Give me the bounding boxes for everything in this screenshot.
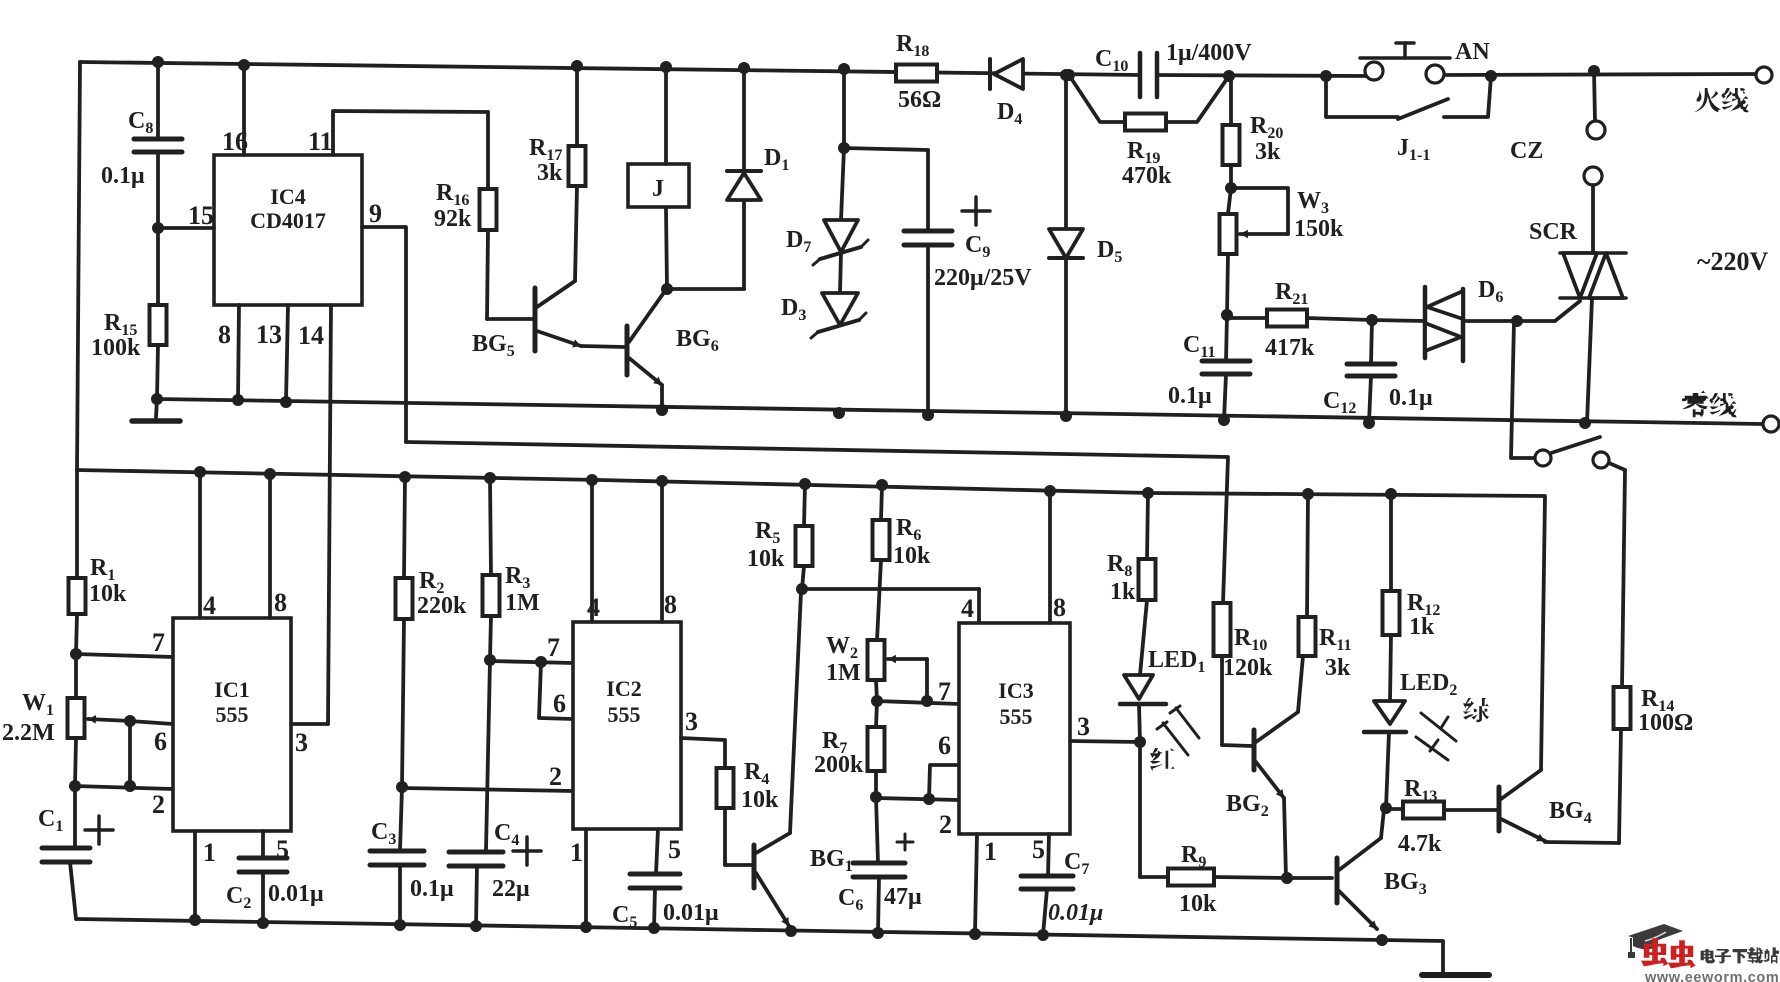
wire IC1 pin2: [75, 786, 173, 789]
svg-text:11: 11: [308, 127, 333, 156]
wire IC3 pin7: [877, 701, 959, 704]
svg-text:8: 8: [218, 320, 231, 349]
svg-text:J: J: [652, 176, 664, 202]
capacitor C10: [1138, 53, 1143, 97]
triac SCR: [1560, 251, 1626, 255]
wire R3 down to C4: [486, 660, 490, 850]
node D6/SCR-gate junction: [1511, 315, 1523, 327]
svg-text:3k: 3k: [1325, 655, 1351, 681]
node BG6 emitter on neutral rail: [656, 404, 668, 416]
node C9-column top on rail: [838, 63, 850, 75]
svg-text:1: 1: [203, 838, 216, 867]
svg-text:470k: 470k: [1122, 163, 1172, 189]
wire IC3 pin5: [1048, 834, 1049, 876]
svg-text:10k: 10k: [89, 581, 127, 607]
node IC2 pin1 ground: [580, 921, 592, 933]
node R19/C10 right junction: [1223, 70, 1235, 82]
svg-text:6: 6: [553, 689, 566, 718]
node rail3 IC1 pin4: [194, 466, 206, 478]
resistor R17: [575, 66, 579, 146]
svg-text:0.1μ: 0.1μ: [1389, 385, 1433, 411]
node AN left: [1320, 70, 1332, 82]
svg-text:100k: 100k: [91, 335, 141, 361]
label 红 red: [1150, 748, 1176, 771]
svg-text:100Ω: 100Ω: [1638, 710, 1693, 736]
svg-text:IC1: IC1: [214, 677, 249, 702]
svg-text:1μ/400V: 1μ/400V: [1166, 40, 1252, 66]
node IC3 pin1 ground: [969, 928, 981, 940]
capacitor C5: [630, 872, 680, 877]
node W1 wiper / pin6: [124, 715, 136, 727]
svg-text:0.1μ: 0.1μ: [410, 876, 454, 902]
wire rail2 pin9 to R10: [406, 442, 1228, 603]
node rail3 IC2 pin4: [586, 474, 598, 486]
svg-text:92k: 92k: [434, 206, 472, 232]
svg-text:7: 7: [152, 628, 165, 657]
resistor R1: [75, 470, 79, 578]
svg-text:3: 3: [1077, 712, 1090, 741]
resistor R14: [1622, 470, 1625, 687]
IC2 555 box: [573, 622, 681, 829]
node C11 bottom on neutral rail: [1218, 414, 1230, 426]
wire IC3 pin3 to LED1 node: [1070, 741, 1140, 742]
wire IC2 pin2: [402, 788, 573, 791]
switch below neutral rail: [1511, 321, 1535, 458]
node pin7/pin6 link: [535, 656, 547, 668]
resistor R8: [1147, 493, 1148, 559]
diode D1: [742, 68, 746, 171]
LED LED2: [1374, 701, 1405, 724]
svg-text:8: 8: [274, 588, 287, 617]
svg-text:150k: 150k: [1294, 216, 1344, 242]
transistor BG5: [533, 288, 538, 351]
svg-text:555: 555: [1000, 704, 1033, 729]
wire IC2 pin6 link: [539, 662, 573, 719]
resistor R9: [1140, 875, 1168, 879]
socket CZ: [1588, 65, 1600, 77]
resistor R20: [1229, 76, 1233, 125]
resistor R21: [1227, 316, 1267, 320]
svg-text:www.eeworm.com: www.eeworm.com: [1644, 970, 1779, 982]
watermark 电子下载站: [1701, 949, 1715, 963]
node C4 bottom: [470, 920, 482, 932]
svg-text:SCR: SCR: [1529, 219, 1578, 245]
resistor R2: [404, 477, 405, 578]
svg-text:200k: 200k: [814, 752, 864, 778]
wire IC3 pin6 link: [929, 765, 959, 799]
svg-text:120k: 120k: [1223, 655, 1273, 681]
wire IC3 pin2: [876, 798, 959, 800]
LED LED1: [1124, 675, 1153, 699]
node AN right: [1485, 70, 1497, 82]
svg-text:3: 3: [685, 707, 698, 736]
svg-text:4: 4: [203, 591, 216, 620]
node R3/pin7 junction: [484, 654, 496, 666]
label 绿 green: [1463, 698, 1490, 722]
node rail3 R5: [799, 478, 811, 490]
wire IC2 pin8: [660, 481, 664, 622]
capacitor C4 electrolytic: [449, 850, 503, 855]
capacitor C7: [1021, 874, 1073, 879]
transistor BG6: [625, 326, 630, 375]
svg-text:0.1μ: 0.1μ: [1168, 383, 1212, 409]
IC4 CD4017 box: [214, 155, 362, 305]
capacitor C1 electrolytic: [73, 786, 77, 848]
wire D6 junction to SCR gate: [1517, 319, 1555, 323]
node W2 bottom: [871, 695, 883, 707]
resistor R6: [881, 485, 882, 520]
svg-text:1: 1: [570, 838, 583, 867]
resistor R13: [1386, 807, 1403, 811]
wire IC4 pin9 right and down (rail2 start): [362, 227, 406, 442]
terminal 零线 right: [1763, 416, 1779, 432]
wire BG6 collector to J and D1: [666, 209, 667, 289]
node IC1 pin1 on ground rail: [189, 914, 201, 926]
diode D5: [1064, 75, 1068, 229]
node R5/BG1/IC3pin4 junction: [796, 583, 808, 595]
wire IC3 pin8: [1048, 491, 1052, 623]
svg-text:0.01μ: 0.01μ: [663, 900, 719, 926]
node R9/BG2e/BG3b junction: [1281, 872, 1293, 884]
node C5 bottom: [648, 922, 660, 934]
potentiometer W2: [868, 640, 885, 680]
node rail3 R12: [1385, 488, 1397, 500]
svg-text:555: 555: [216, 702, 249, 727]
svg-text:LED2: LED2: [1400, 670, 1457, 699]
svg-text:2: 2: [152, 790, 165, 819]
wire top hot rail left part: [80, 62, 1140, 75]
node pin6 link on pin2 wire: [923, 793, 935, 805]
node rail3 R3: [484, 472, 496, 484]
node LED2/R13/BG3c junction: [1380, 802, 1392, 814]
transistor BG4: [1497, 787, 1502, 831]
terminal 火线 right: [1756, 67, 1772, 83]
svg-text:3k: 3k: [1255, 139, 1281, 165]
svg-text:22μ: 22μ: [492, 876, 530, 902]
node SCR bottom on neutral rail: [1579, 417, 1591, 429]
svg-text:1: 1: [984, 837, 997, 866]
wire IC4 pin11 up and right to R16: [333, 111, 488, 155]
resistor R4: [717, 768, 734, 808]
svg-text:7: 7: [938, 677, 951, 706]
wire IC1 pin6: [130, 721, 173, 724]
capacitor C12: [1371, 320, 1372, 364]
zener diode D7: [841, 148, 844, 220]
node R15 bottom on neutral rail: [151, 393, 163, 405]
svg-text:10k: 10k: [747, 546, 785, 572]
svg-text:0.1μ: 0.1μ: [101, 163, 145, 189]
svg-text:555: 555: [608, 702, 641, 727]
wire IC3 pin1: [975, 834, 977, 934]
wire IC2 pin3 to R4: [681, 738, 725, 768]
resistor R7: [876, 701, 877, 727]
resistor R5: [804, 484, 805, 526]
supply rail of bottom section: [77, 470, 1545, 770]
node C9 bottom on neutral rail: [922, 409, 934, 421]
svg-text:CD4017: CD4017: [250, 208, 326, 233]
resistor R3: [490, 478, 491, 575]
node D5/C10 junction on rail: [1063, 69, 1075, 81]
svg-text:10k: 10k: [1179, 891, 1217, 917]
wire top hot rail mid part: [1157, 75, 1366, 76]
neutral rail 零线: [157, 399, 1762, 424]
relay contact J1-1: [1326, 76, 1398, 117]
wire IC1 pin3 stub: [291, 722, 328, 726]
svg-text:7: 7: [547, 633, 560, 662]
node rail3 R8: [1142, 487, 1154, 499]
svg-text:AN: AN: [1455, 39, 1490, 65]
svg-text:9: 9: [369, 199, 382, 228]
node R17 top on rail: [571, 60, 583, 72]
node pin15/C8/R15 junction: [152, 222, 164, 234]
wire left border of top frame: [77, 62, 80, 470]
watermark 虫虫 red: [1641, 938, 1669, 966]
svg-text:3: 3: [295, 728, 308, 757]
resistor R11: [1307, 494, 1308, 617]
label 零线: [1682, 390, 1709, 417]
node W2 wiper junction: [921, 695, 933, 707]
potentiometer W1: [74, 654, 78, 698]
wire IC4 pin16 to top rail: [242, 65, 246, 155]
node R2/C3/pin2 junction: [396, 781, 408, 793]
capacitor C8: [156, 62, 160, 139]
transistor BG3: [1287, 876, 1332, 880]
svg-text:220μ/25V: 220μ/25V: [934, 265, 1032, 291]
wire IC1 pin4: [198, 472, 202, 618]
wire IC2 pin5: [656, 829, 658, 874]
svg-text:15: 15: [188, 201, 214, 230]
zener diode D3: [840, 252, 841, 293]
svg-text:8: 8: [664, 590, 677, 619]
node pin2 junction left: [69, 780, 81, 792]
capacitor C11: [1226, 315, 1227, 361]
svg-text:8: 8: [1053, 593, 1066, 622]
svg-text:417k: 417k: [1265, 335, 1315, 361]
wire IC1 pin8: [268, 474, 272, 618]
svg-text:0.01μ: 0.01μ: [268, 881, 324, 907]
svg-text:1M: 1M: [826, 660, 861, 686]
wire IC2 pin4: [590, 480, 594, 622]
node IC3pin3/LED1 junction: [1134, 736, 1146, 748]
svg-text:1k: 1k: [1110, 579, 1136, 605]
IC1 555 box: [173, 618, 291, 831]
resistor R19 bypass: [1069, 75, 1125, 122]
capacitor C6 electrolytic: [876, 797, 878, 863]
diac D6: [1372, 320, 1425, 321]
svg-text:47μ: 47μ: [884, 884, 922, 910]
wire IC4 pin13 to neutral rail: [286, 305, 288, 402]
svg-text:4: 4: [961, 594, 974, 623]
svg-text:5: 5: [668, 835, 681, 864]
wire IC4 pin8 to neutral rail: [238, 305, 239, 400]
resistor R16: [486, 112, 490, 189]
svg-text:2: 2: [939, 810, 952, 839]
svg-text:3k: 3k: [537, 160, 563, 186]
svg-text:13: 13: [256, 320, 282, 349]
svg-text:10k: 10k: [741, 787, 779, 813]
svg-text:6: 6: [154, 727, 167, 756]
node rail3 R11: [1302, 488, 1314, 500]
node top rail at C8: [152, 56, 164, 68]
svg-text:1k: 1k: [1409, 614, 1435, 640]
node C12 bottom on neutral rail: [1363, 417, 1375, 429]
node rail3 IC1 pin8: [264, 468, 276, 480]
wire LED1 node down to R9: [1138, 742, 1142, 877]
wire IC4 pin14 long vertical to IC1 pin3: [328, 305, 331, 724]
node rail3 IC3 pin8: [1044, 485, 1056, 497]
node D5 top: [1060, 69, 1072, 81]
node D3 bottom on neutral rail: [833, 407, 845, 419]
node C7 bottom: [1037, 929, 1049, 941]
wire IC2 pin7: [490, 661, 573, 663]
node C2 bottom: [257, 917, 269, 929]
resistor R15: [156, 228, 160, 305]
ground symbol under R15: [156, 399, 157, 417]
node rail3 R6: [876, 479, 888, 491]
transistor BG2: [1252, 730, 1257, 770]
svg-text:~220V: ~220V: [1697, 247, 1769, 276]
node rail3 R2: [399, 471, 411, 483]
pushbutton AN: [1360, 56, 1450, 60]
svg-text:220k: 220k: [417, 593, 467, 619]
svg-text:5: 5: [1032, 835, 1045, 864]
node D5 bottom on neutral rail: [1060, 410, 1072, 422]
wire IC1 pin1: [193, 831, 197, 920]
svg-text:56Ω: 56Ω: [898, 87, 941, 113]
IC3 555 box: [959, 623, 1070, 834]
wire IC4 pin15 to C8/R15 node: [158, 226, 214, 230]
resistor R18: [896, 65, 937, 82]
resistor R12: [1389, 494, 1393, 591]
capacitor C3: [400, 787, 402, 851]
svg-text:4.7k: 4.7k: [1398, 831, 1442, 857]
capacitor C9 electrolytic: [926, 150, 930, 231]
svg-text:14: 14: [298, 321, 324, 350]
wire R5 node to IC3 pin4: [802, 587, 979, 591]
watermark graduation cap icon: [1628, 924, 1683, 943]
node C12/R21 junction: [1366, 314, 1378, 326]
svg-text:2: 2: [549, 762, 562, 791]
wire IC1 pin5: [261, 831, 265, 858]
node R1/pin7 junction: [70, 648, 82, 660]
svg-text:6: 6: [938, 731, 951, 760]
node BG6 collector junction: [661, 283, 673, 295]
node C6 bottom: [872, 927, 884, 939]
relay coil J: [628, 164, 689, 207]
svg-text:IC2: IC2: [606, 676, 641, 701]
node BG3 emitter ground: [1376, 934, 1388, 946]
potentiometer W3: [1228, 188, 1231, 214]
svg-text:IC3: IC3: [998, 678, 1033, 703]
transistor BG1: [752, 845, 757, 888]
wire C9 column upper: [842, 69, 846, 148]
capacitor C2: [239, 856, 287, 861]
svg-text:CZ: CZ: [1510, 138, 1543, 164]
wire IC2 pin1: [584, 829, 588, 927]
node BG1 emitter ground: [785, 925, 797, 937]
svg-text:10k: 10k: [893, 543, 931, 569]
wire top hot rail right part: [1443, 74, 1756, 75]
node R20/W3 junction: [1225, 182, 1237, 194]
node rail3 IC2 pin8: [656, 475, 668, 487]
node C3 bottom: [394, 919, 406, 931]
wire pin6-pin2 link: [128, 721, 132, 786]
wire IC1 pin7: [76, 654, 173, 657]
ground rail of bottom section: [77, 919, 1443, 971]
diode D4: [988, 59, 992, 89]
svg-text:2.2M: 2.2M: [2, 720, 55, 746]
svg-text:LED1: LED1: [1148, 647, 1205, 676]
node W3/R21/C11 junction: [1221, 309, 1233, 321]
label 火线: [1694, 88, 1721, 112]
svg-text:IC4: IC4: [270, 184, 305, 209]
node R7/C6/pin2 junction: [870, 791, 882, 803]
ground symbol bottom right: [1422, 972, 1489, 978]
svg-text:0.01μ: 0.01μ: [1048, 900, 1103, 926]
svg-text:1M: 1M: [505, 590, 540, 616]
resistor R10: [1214, 603, 1231, 656]
